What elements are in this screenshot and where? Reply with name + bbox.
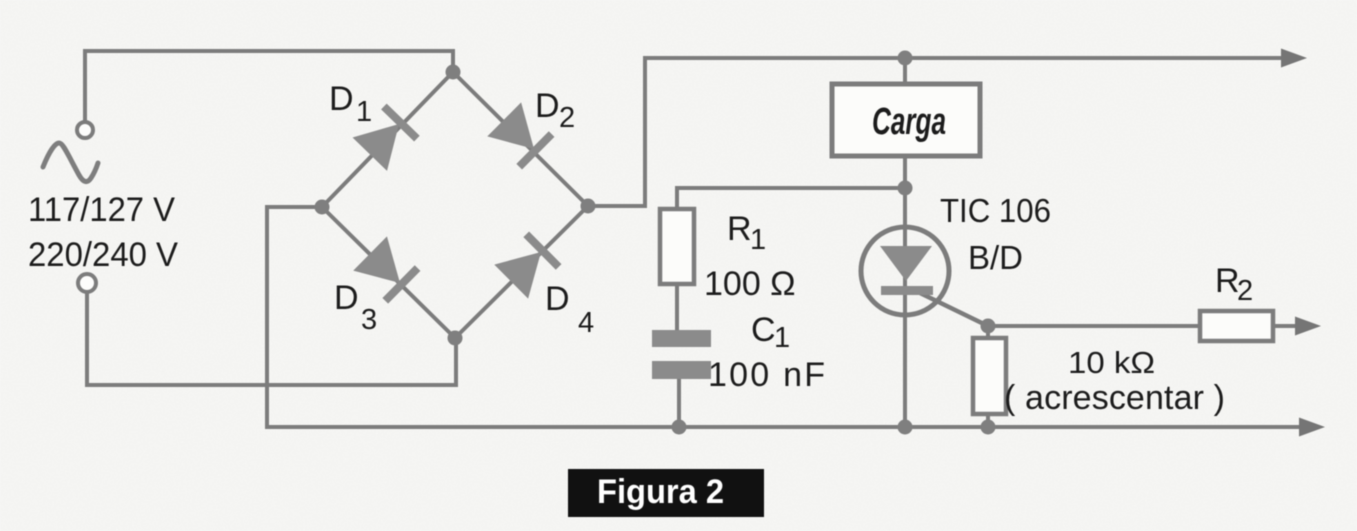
svg-text:R: R [1215, 262, 1240, 300]
node bridge top [446, 65, 461, 80]
wire AC top to bridge top [85, 51, 453, 122]
resistor R1 [660, 209, 694, 284]
resistor 10k (acrescentar) [973, 338, 1006, 414]
svg-text:117/127 V: 117/127 V [28, 191, 175, 229]
svg-text:( acrescentar ): ( acrescentar ) [1004, 379, 1225, 417]
wire R1 top feed [677, 188, 905, 209]
terminal bottom [78, 274, 96, 292]
wire bridge left node to bottom line [267, 207, 1303, 427]
wire carga bottom to SCR and bottom line [903, 158, 907, 427]
AC sine symbol [43, 143, 98, 182]
node carga top [898, 51, 913, 66]
terminal top [77, 122, 93, 138]
svg-text:B/D: B/D [968, 239, 1023, 276]
wire gate resistor stubs [986, 326, 990, 338]
load box Carga [832, 84, 980, 156]
svg-text:4: 4 [578, 307, 594, 339]
svg-text:1: 1 [356, 96, 372, 128]
diode D1 [353, 103, 421, 171]
node bridge right [581, 199, 596, 214]
wire R1 to C1 [675, 284, 679, 330]
wire bridge edge D2 [453, 72, 588, 206]
figure caption Figura 2 [568, 469, 764, 517]
node SCR bottom [898, 420, 913, 435]
diode D3 [353, 236, 421, 304]
node carga bottom [898, 181, 913, 196]
node bridge bottom [448, 331, 463, 346]
svg-text:220/240 V: 220/240 V [28, 236, 178, 274]
svg-text:D: D [329, 80, 354, 118]
svg-text:10 kΩ: 10 kΩ [1068, 345, 1155, 380]
wire bridge edge D1 [322, 72, 453, 207]
node bridge left [315, 200, 330, 215]
svg-text:TIC 106: TIC 106 [940, 192, 1051, 229]
capacitor C1 [652, 330, 711, 347]
wire bridge right node to top line [588, 58, 1286, 206]
wire R2 to arrow [1273, 324, 1300, 328]
svg-text:100 Ω: 100 Ω [704, 265, 796, 303]
SCR U1 TIC106 [861, 227, 949, 315]
wire bridge edge D4 [455, 206, 588, 338]
svg-text:2: 2 [559, 102, 575, 134]
wire SCR gate [918, 292, 988, 326]
svg-text:R: R [727, 210, 752, 248]
node gate junction [981, 319, 996, 334]
svg-text:Figura 2: Figura 2 [597, 473, 724, 511]
wire bridge edge D3 [322, 207, 455, 338]
svg-text:100 nF: 100 nF [708, 356, 825, 394]
wire AC bottom to bridge bottom [87, 292, 456, 385]
svg-text:1: 1 [750, 224, 766, 256]
svg-text:C: C [751, 311, 776, 349]
wire gate to R2 [988, 324, 1200, 328]
diode D4 [494, 231, 562, 299]
svg-text:D: D [535, 87, 560, 125]
wire carga top drop [903, 58, 907, 84]
diode D2 [487, 102, 555, 170]
resistor R2 [1200, 311, 1273, 341]
svg-text:D: D [334, 279, 359, 317]
arrow top output [1281, 49, 1307, 68]
svg-text:Carga: Carga [872, 101, 946, 143]
wire C1 to bottom line [677, 379, 681, 427]
svg-text:2: 2 [1237, 275, 1253, 307]
node 10k bottom [981, 420, 996, 435]
svg-text:3: 3 [361, 304, 377, 336]
arrow bottom output [1299, 418, 1325, 437]
svg-text:D: D [545, 280, 570, 318]
arrow gate output [1295, 317, 1321, 336]
svg-text:1: 1 [774, 322, 790, 354]
node C1 bottom [672, 420, 687, 435]
